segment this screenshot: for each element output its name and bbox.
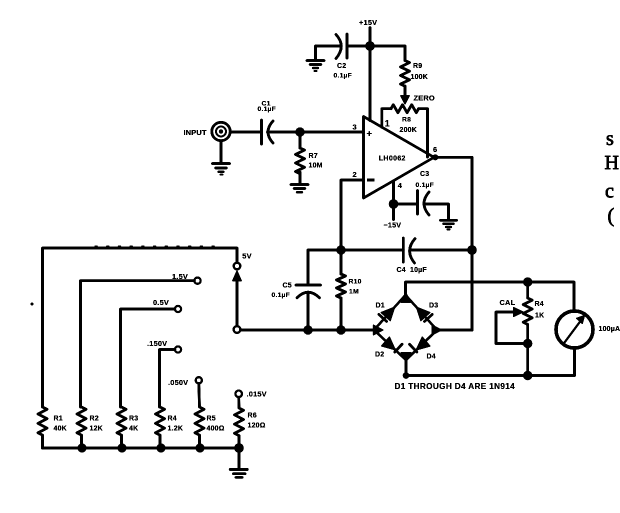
svg-text:2: 2 (353, 170, 357, 179)
svg-text:200K: 200K (400, 127, 418, 134)
svg-text:s: s (606, 128, 614, 150)
svg-text:.015V: .015V (247, 390, 267, 399)
svg-text:120Ω: 120Ω (248, 423, 266, 430)
svg-text:R7: R7 (309, 153, 318, 160)
svg-text:0.1µF: 0.1µF (272, 292, 291, 299)
svg-text:D4: D4 (427, 354, 436, 361)
svg-text:R6: R6 (248, 413, 257, 420)
svg-text:−15V: −15V (384, 221, 402, 230)
svg-text:10M: 10M (309, 163, 323, 170)
svg-text:100K: 100K (411, 74, 429, 81)
svg-text:D2: D2 (375, 352, 384, 359)
svg-text:R8: R8 (402, 117, 411, 124)
svg-text:1.5V: 1.5V (172, 272, 188, 281)
svg-text:(: ( (608, 205, 615, 227)
svg-text:1M: 1M (349, 288, 359, 295)
svg-text:R5: R5 (207, 415, 216, 422)
svg-text:0.1µF: 0.1µF (258, 106, 277, 113)
svg-text:400Ω: 400Ω (207, 426, 225, 433)
svg-text:4K: 4K (129, 426, 138, 433)
svg-text:R3: R3 (129, 415, 138, 422)
svg-text:6: 6 (433, 145, 437, 154)
svg-text:R9: R9 (413, 63, 422, 70)
svg-text:c: c (605, 181, 614, 203)
svg-text:12K: 12K (90, 426, 103, 433)
svg-text:D1: D1 (376, 303, 385, 310)
svg-text:C3: C3 (420, 171, 429, 178)
svg-text:ZERO: ZERO (414, 94, 435, 103)
svg-text:+15V: +15V (359, 18, 377, 27)
svg-text:D1 THROUGH D4 ARE 1N914: D1 THROUGH D4 ARE 1N914 (395, 382, 516, 391)
svg-text:LH0062: LH0062 (379, 156, 406, 163)
svg-text:CAL: CAL (500, 298, 516, 307)
svg-text:.150V: .150V (147, 339, 167, 348)
svg-text:C5: C5 (283, 282, 292, 289)
svg-text:R1: R1 (54, 415, 63, 422)
svg-text:0.1µF: 0.1µF (416, 182, 435, 189)
svg-text:C2: C2 (337, 63, 346, 70)
svg-text:100µA: 100µA (599, 326, 620, 333)
svg-text:C4: C4 (397, 267, 406, 274)
svg-text:40K: 40K (54, 426, 67, 433)
svg-text:.050V: .050V (168, 378, 188, 387)
svg-text:4: 4 (398, 181, 403, 190)
svg-text:R10: R10 (349, 279, 362, 286)
svg-text:1: 1 (385, 118, 390, 128)
svg-text:+: + (367, 128, 373, 139)
svg-text:R2: R2 (90, 415, 99, 422)
svg-text:R4: R4 (168, 415, 177, 422)
svg-text:1.2K: 1.2K (168, 426, 184, 433)
svg-text:1K: 1K (535, 313, 544, 320)
svg-text:3: 3 (353, 123, 357, 132)
svg-text:H: H (605, 152, 619, 174)
svg-text:0.5V: 0.5V (153, 298, 169, 307)
svg-text:5V: 5V (242, 252, 251, 261)
svg-text:0.1µF: 0.1µF (334, 73, 353, 80)
svg-text:D3: D3 (429, 303, 438, 310)
svg-text:R4: R4 (535, 301, 544, 308)
svg-text:INPUT: INPUT (184, 128, 207, 137)
svg-text:10µF: 10µF (410, 267, 427, 274)
